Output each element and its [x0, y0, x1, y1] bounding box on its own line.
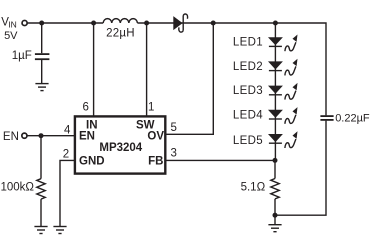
wire: pin 6 drop to IN	[93, 23, 95, 116]
node: junction R2 bottom	[273, 213, 278, 218]
wire: top rail from inductor through diode to right branch corner	[137, 23, 326, 115]
svg-text:3: 3	[171, 148, 177, 160]
ground for U1 GND	[53, 227, 66, 234]
wire: top rail from VIN to inductor	[27, 22, 103, 24]
LED LED5	[268, 131, 298, 148]
node: junction FB/LED5/R2	[273, 158, 278, 163]
svg-text:1: 1	[148, 101, 154, 113]
diode D1 schottky	[173, 16, 182, 30]
wire: pin 1 drop to SW	[146, 23, 148, 116]
ground for C1	[35, 84, 48, 91]
svg-text:LED2: LED2	[233, 61, 263, 73]
LED LED2	[268, 59, 298, 76]
svg-text:0.22µF: 0.22µF	[335, 113, 370, 125]
svg-text:2: 2	[63, 148, 69, 160]
LED LED4	[268, 107, 298, 124]
node: EN terminal	[22, 133, 27, 138]
wire: bottom return to C2	[275, 121, 326, 216]
wire: OV pin 5 to top rail	[166, 23, 213, 134]
svg-text:LED1: LED1	[233, 37, 263, 49]
node: junction SW tap	[144, 21, 149, 26]
capacitor C2 0.22uF	[320, 115, 333, 117]
node: junction OV tap	[211, 21, 216, 26]
svg-text:4: 4	[64, 124, 71, 136]
resistor R1 100k	[40, 136, 42, 179]
wire: FB pin 3 to LED chain	[166, 159, 275, 161]
wire: EN to pin 4	[27, 135, 75, 137]
ground for R2	[268, 225, 281, 232]
inductor L1 22uH	[103, 19, 137, 23]
svg-text:EN: EN	[3, 131, 19, 143]
svg-text:5V: 5V	[4, 30, 18, 42]
node: junction IN tap	[91, 21, 96, 26]
node: junction LED chain top	[273, 21, 278, 26]
LED LED1	[268, 35, 298, 52]
resistor R2 5.1ohm	[274, 160, 276, 178]
svg-text:100kΩ: 100kΩ	[0, 182, 34, 194]
svg-text:LED3: LED3	[233, 85, 263, 97]
node: junction EN/R1	[39, 133, 44, 138]
svg-text:MP3204: MP3204	[99, 142, 142, 154]
ground for R1	[34, 227, 47, 234]
svg-text:LED4: LED4	[233, 110, 263, 122]
svg-text:LED5: LED5	[233, 135, 263, 147]
svg-text:OV: OV	[147, 131, 164, 143]
wire: LED chain vertical	[274, 23, 276, 160]
svg-text:EN: EN	[79, 131, 95, 143]
node: junction C1 tap	[39, 21, 44, 26]
svg-text:FB: FB	[148, 156, 163, 168]
capacitor C1 1uF	[41, 23, 43, 53]
svg-text:22µH: 22µH	[106, 28, 135, 40]
svg-text:5.1Ω: 5.1Ω	[241, 181, 266, 193]
svg-text:GND: GND	[79, 156, 105, 168]
op-amp U1 MP3204 box	[75, 116, 165, 173]
svg-text:5: 5	[171, 122, 177, 134]
svg-text:1µF: 1µF	[12, 50, 32, 62]
svg-text:6: 6	[83, 101, 89, 113]
LED LED3	[268, 83, 298, 100]
node: VIN terminal circle	[22, 20, 27, 25]
svg-text:IN: IN	[8, 20, 16, 30]
wire: GND pin 2	[60, 160, 75, 226]
